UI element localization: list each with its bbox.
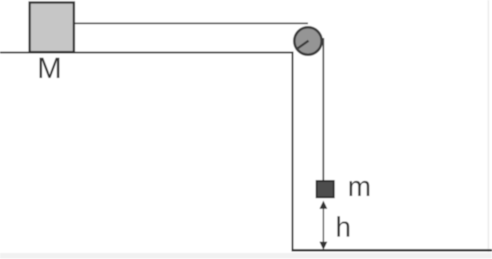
faint right page border — [488, 0, 490, 252]
label h — [337, 216, 349, 236]
label m — [350, 181, 370, 196]
mass m — [317, 181, 334, 197]
arrow h (double headed) — [322, 206, 324, 245]
wire: vertical string from pulley to m — [322, 38, 324, 182]
wire: table vertical edge — [292, 52, 294, 251]
pulley spoke — [297, 41, 309, 49]
wire: floor line — [292, 249, 492, 251]
wire: table surface line — [0, 52, 293, 54]
pulley — [294, 27, 321, 54]
block M — [30, 3, 74, 53]
bottom gray strip — [0, 253, 492, 258]
label M — [40, 58, 60, 78]
wire: horizontal string from M to pulley — [74, 22, 308, 24]
